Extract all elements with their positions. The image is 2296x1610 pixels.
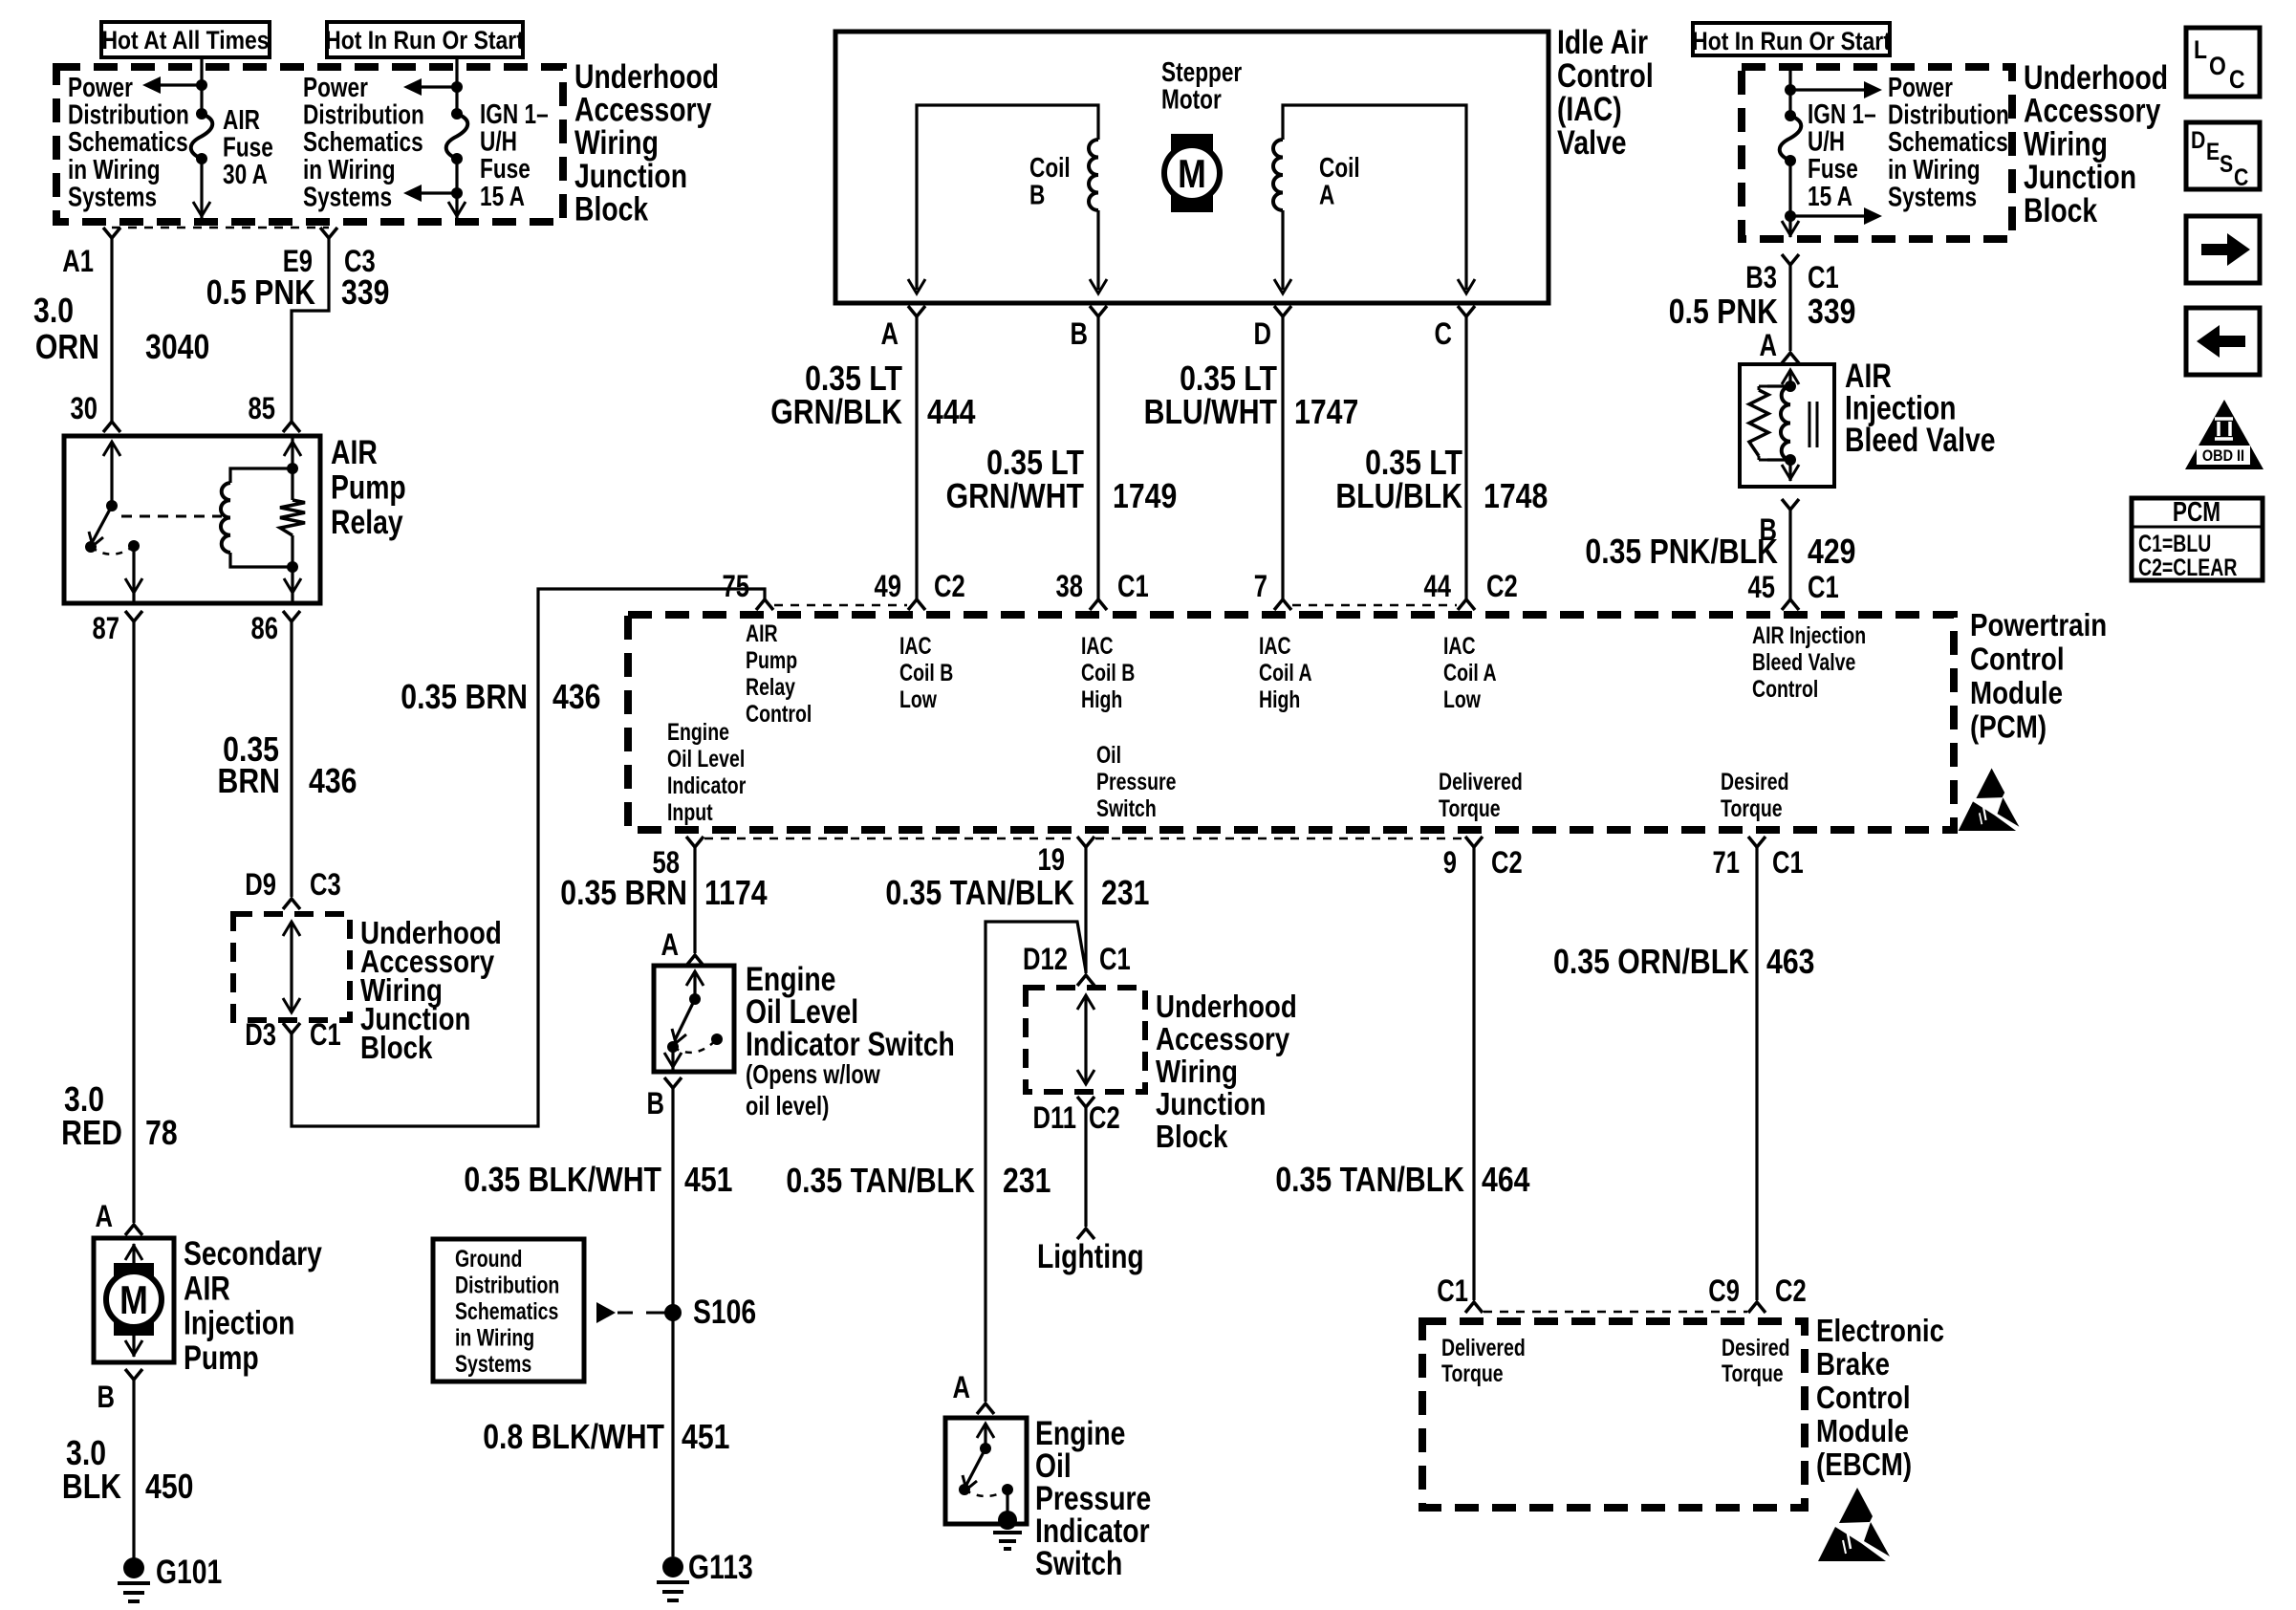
- svg-text:Brake: Brake: [1816, 1347, 1890, 1382]
- svg-text:Bleed Valve: Bleed Valve: [1752, 649, 1855, 676]
- svg-text:A: A: [96, 1200, 114, 1233]
- svg-text:Hot At All Times: Hot At All Times: [101, 26, 269, 54]
- arrow to Power Distribution Schematics (left): [153, 83, 202, 86]
- bleed valve pin B connector and label: [1782, 499, 1799, 510]
- svg-text:0.35 PNK/BLK: 0.35 PNK/BLK: [1585, 533, 1778, 572]
- PCM connector link dashed line 75-49: [774, 604, 907, 607]
- wire A1 to relay pin 30, circuit 3.0 ORN 3040: [110, 238, 113, 422]
- svg-text:Torque: Torque: [1722, 1360, 1784, 1387]
- wire pump B to ground G101, circuit 3.0 BLK 450: [132, 1380, 135, 1558]
- svg-text:0.8 BLK/WHT: 0.8 BLK/WHT: [483, 1419, 664, 1457]
- svg-text:0.35 BRN: 0.35 BRN: [401, 679, 528, 717]
- svg-text:Indicator Switch: Indicator Switch: [746, 1025, 955, 1063]
- svg-text:0.35 BRN: 0.35 BRN: [560, 875, 687, 913]
- svg-text:0.35 ORN/BLK: 0.35 ORN/BLK: [1553, 944, 1749, 982]
- svg-text:A: A: [1319, 179, 1335, 210]
- wire from Hot At All Times into junction block: [200, 57, 203, 114]
- svg-text:OBD II: OBD II: [2202, 447, 2244, 465]
- svg-text:Coil B: Coil B: [899, 660, 953, 686]
- svg-text:Oil: Oil: [1096, 742, 1121, 769]
- wire B3/C1 to bleed valve, circuit 0.5 PNK 339: [1788, 265, 1791, 351]
- svg-text:339: 339: [1808, 294, 1855, 332]
- PCM connector link dashed line 7-44: [1292, 604, 1457, 607]
- svg-text:C1: C1: [1099, 943, 1131, 976]
- svg-text:15 A: 15 A: [480, 180, 525, 211]
- svg-text:436: 436: [552, 679, 600, 717]
- svg-text:1747: 1747: [1294, 394, 1358, 432]
- svg-text:Block: Block: [574, 190, 648, 228]
- svg-text:C2=CLEAR: C2=CLEAR: [2138, 555, 2237, 581]
- svg-text:444: 444: [927, 394, 976, 432]
- svg-text:Input: Input: [667, 799, 713, 826]
- svg-text:231: 231: [1101, 875, 1149, 913]
- svg-text:19: 19: [1038, 843, 1065, 877]
- svg-text:Delivered: Delivered: [1439, 769, 1523, 795]
- svg-text:339: 339: [341, 274, 389, 313]
- IAC stepper motor symbol M: [1171, 134, 1213, 212]
- svg-text:ORN: ORN: [35, 329, 99, 367]
- engine oil pressure indicator switch box: [945, 1418, 1027, 1524]
- legend box: PCM connectors: [2132, 498, 2263, 580]
- wire relay 87 to secondary AIR injection pump, circuit 3.0 RED 78: [132, 621, 135, 1223]
- svg-text:Bleed Valve: Bleed Valve: [1845, 421, 1995, 459]
- node on right IGN fuse feed: [1785, 84, 1796, 96]
- svg-text:C3: C3: [310, 868, 341, 902]
- svg-text:C2: C2: [1486, 570, 1518, 603]
- arrow to Power Distribution Schematics (right, top): [1790, 88, 1866, 91]
- svg-text:Wiring: Wiring: [2024, 125, 2108, 163]
- svg-text:AIR: AIR: [331, 433, 378, 471]
- svg-text:44: 44: [1424, 570, 1451, 603]
- IAC coil B winding and wires: [917, 105, 1098, 290]
- svg-text:0.35 TAN/BLK: 0.35 TAN/BLK: [1275, 1162, 1464, 1200]
- svg-text:C9: C9: [1708, 1274, 1740, 1308]
- svg-text:A1: A1: [62, 245, 94, 278]
- svg-text:IAC: IAC: [1081, 633, 1114, 660]
- svg-text:49: 49: [875, 570, 901, 603]
- svg-text:Powertrain: Powertrain: [1970, 608, 2107, 643]
- svg-text:C: C: [2234, 163, 2249, 190]
- svg-text:Torque: Torque: [1441, 1360, 1504, 1387]
- svg-text:Secondary: Secondary: [184, 1234, 322, 1273]
- svg-text:M: M: [119, 1278, 148, 1322]
- svg-text:Torque: Torque: [1439, 795, 1501, 822]
- svg-text:High: High: [1081, 686, 1122, 713]
- svg-text:85: 85: [249, 392, 275, 425]
- icon: arrow left box: [2186, 308, 2260, 375]
- wire relay 86 down to junction block D9, circuit 0.35 BRN 436: [290, 621, 292, 897]
- connector E9 / C3 at junction block: [320, 228, 337, 238]
- svg-text:IAC: IAC: [1443, 633, 1476, 660]
- oil pressure switch contacts: [977, 1424, 994, 1438]
- svg-text:Underhood: Underhood: [2024, 58, 2168, 97]
- svg-text:Low: Low: [1443, 686, 1481, 713]
- svg-text:O: O: [2209, 52, 2226, 80]
- svg-text:Junction: Junction: [2024, 158, 2136, 196]
- svg-text:C1: C1: [1117, 570, 1149, 603]
- svg-text:Control: Control: [1816, 1381, 1911, 1416]
- svg-text:Desired: Desired: [1722, 1335, 1789, 1361]
- svg-text:C2: C2: [1089, 1101, 1120, 1135]
- svg-text:Oil Level: Oil Level: [667, 746, 745, 772]
- bleed valve resistor: [1767, 384, 1790, 387]
- relay pin 30 connector: [103, 422, 120, 432]
- svg-text:E: E: [2206, 138, 2220, 164]
- svg-text:S: S: [2220, 150, 2233, 177]
- ESD sensitive symbol near PCM: [1976, 769, 2004, 799]
- idle air control IAC valve box: [835, 32, 1549, 303]
- svg-text:C1: C1: [1808, 571, 1839, 604]
- svg-text:30: 30: [71, 392, 97, 425]
- svg-text:D3: D3: [245, 1018, 276, 1052]
- icon: DESC box: [2186, 122, 2260, 189]
- svg-text:D: D: [2191, 126, 2205, 153]
- svg-text:Injection: Injection: [184, 1304, 294, 1342]
- svg-text:RED: RED: [61, 1115, 122, 1153]
- wire below IGN fuse with arrow: [455, 159, 458, 218]
- svg-text:S106: S106: [693, 1293, 756, 1331]
- svg-text:D: D: [1254, 317, 1271, 351]
- reference arrow to S106: [596, 1302, 616, 1323]
- svg-text:GRN/WHT: GRN/WHT: [946, 478, 1084, 516]
- svg-text:Low: Low: [899, 686, 937, 713]
- wire PCM 9 to EBCM C1, circuit 0.35 TAN/BLK 464: [1472, 847, 1475, 1300]
- svg-text:7: 7: [1254, 570, 1267, 603]
- svg-text:M: M: [1178, 152, 1206, 196]
- svg-text:A: A: [661, 928, 680, 962]
- svg-text:451: 451: [684, 1162, 732, 1200]
- svg-text:Block: Block: [1156, 1120, 1228, 1155]
- svg-text:3.0: 3.0: [33, 293, 74, 331]
- underhood accessory wiring junction block (left dashed box): [56, 67, 563, 222]
- svg-text:AIR Injection: AIR Injection: [1752, 622, 1866, 649]
- svg-text:Systems: Systems: [1888, 181, 1977, 212]
- powertrain control module PCM dashed box: [628, 615, 1954, 830]
- svg-text:Pump: Pump: [331, 468, 406, 507]
- svg-text:Underhood: Underhood: [1156, 990, 1297, 1025]
- svg-text:464: 464: [1482, 1162, 1530, 1200]
- connector A1 at junction block: [103, 228, 120, 238]
- svg-text:C2: C2: [934, 570, 965, 603]
- svg-text:71: 71: [1713, 846, 1740, 880]
- svg-text:Delivered: Delivered: [1441, 1335, 1526, 1361]
- svg-text:A: A: [881, 317, 899, 351]
- svg-text:oil level): oil level): [746, 1091, 829, 1120]
- pump motor symbol: [132, 1244, 135, 1267]
- icon: OBD II triangle: [2185, 400, 2264, 469]
- svg-text:436: 436: [309, 763, 357, 801]
- svg-text:Lighting: Lighting: [1037, 1237, 1144, 1275]
- underhood accessory wiring junction block (small, bottom middle): [1026, 988, 1145, 1092]
- wire D11 to Lighting, circuit 0.35 TAN/BLK 231: [1084, 1107, 1087, 1227]
- svg-text:C: C: [1435, 317, 1453, 351]
- svg-text:15 A: 15 A: [1808, 180, 1852, 211]
- wire D3/C1 routed to PCM pin 75, circuit 0.35 BRN 436: [292, 589, 765, 1126]
- svg-text:45: 45: [1748, 571, 1775, 604]
- svg-text:C1: C1: [1772, 846, 1804, 880]
- IAC pin D connector and label: [1274, 306, 1291, 316]
- wire oil level switch B to S106, circuit 0.35 BLK/WHT 451: [671, 1088, 674, 1313]
- svg-text:L: L: [2194, 35, 2207, 64]
- svg-text:231: 231: [1003, 1163, 1051, 1201]
- svg-text:(Opens w/low: (Opens w/low: [746, 1059, 880, 1089]
- svg-text:Desired: Desired: [1721, 769, 1788, 795]
- svg-text:A: A: [953, 1371, 971, 1404]
- arrow from below right fuse (bottom): [1790, 214, 1866, 217]
- svg-text:Switch: Switch: [1096, 795, 1157, 822]
- ESD sensitive symbol near EBCM: [1839, 1488, 1873, 1523]
- svg-text:0.35 TAN/BLK: 0.35 TAN/BLK: [885, 875, 1074, 913]
- svg-text:30 A: 30 A: [223, 158, 268, 189]
- svg-text:in Wiring: in Wiring: [455, 1324, 534, 1351]
- svg-text:C2: C2: [1775, 1274, 1807, 1308]
- svg-text:3040: 3040: [145, 329, 209, 367]
- svg-text:BLK: BLK: [62, 1469, 121, 1507]
- relay switch arm and contacts: [103, 442, 120, 456]
- svg-text:Systems: Systems: [455, 1351, 531, 1378]
- svg-text:C: C: [2229, 65, 2245, 94]
- svg-text:B: B: [1029, 179, 1045, 210]
- svg-text:B: B: [647, 1087, 664, 1120]
- wire from Hot In Run Or Start into junction block: [455, 57, 458, 114]
- power label box: Hot In Run Or Start (left): [327, 22, 523, 57]
- svg-text:C1: C1: [310, 1018, 341, 1052]
- relay: AIR Pump Relay box: [64, 436, 320, 603]
- svg-text:1749: 1749: [1113, 478, 1177, 516]
- relay pin 85 connector: [283, 422, 300, 432]
- svg-text:Systems: Systems: [303, 181, 392, 212]
- branch wire to engine oil pressure switch: [986, 922, 1086, 1402]
- oil level switch contacts: [686, 971, 704, 986]
- svg-text:(PCM): (PCM): [1970, 709, 2047, 745]
- node below IGN fuse: [451, 187, 463, 199]
- node on AIR fuse feed: [196, 79, 207, 91]
- svg-text:Block: Block: [360, 1031, 433, 1066]
- svg-text:1748: 1748: [1484, 478, 1548, 516]
- svg-text:GRN/BLK: GRN/BLK: [770, 394, 902, 432]
- svg-text:G113: G113: [688, 1548, 753, 1586]
- power label box: Hot In Run Or Start (right): [1693, 23, 1890, 55]
- svg-text:Module: Module: [1816, 1414, 1909, 1449]
- svg-text:463: 463: [1766, 944, 1814, 982]
- relay resistor: [291, 436, 293, 500]
- svg-text:BLU/BLK: BLU/BLK: [1335, 478, 1462, 516]
- svg-text:Indicator: Indicator: [667, 772, 747, 799]
- electronic brake control module EBCM dashed box: [1422, 1321, 1805, 1508]
- svg-text:Relay: Relay: [331, 503, 403, 541]
- svg-text:(EBCM): (EBCM): [1816, 1447, 1912, 1483]
- ground distribution schematics reference box: [433, 1239, 584, 1382]
- svg-text:86: 86: [251, 612, 278, 645]
- wire E9/C3 to relay pin 85, circuit 0.5 PNK 339: [292, 238, 329, 422]
- svg-text:B3: B3: [1745, 261, 1777, 294]
- svg-text:429: 429: [1808, 533, 1855, 572]
- svg-text:D11: D11: [1032, 1101, 1076, 1135]
- arrow to Systems (middle, bottom): [416, 191, 457, 194]
- wire PCM 71 to EBCM C9/C2, circuit 0.35 ORN/BLK 463: [1755, 847, 1758, 1300]
- icon: arrow right box: [2186, 216, 2260, 283]
- splice node S106: [664, 1304, 682, 1321]
- IAC pin B connector and label: [1090, 306, 1107, 316]
- svg-text:0.5 PNK: 0.5 PNK: [1669, 294, 1778, 332]
- node on IGN fuse feed: [451, 81, 463, 93]
- svg-text:PCM: PCM: [2173, 495, 2220, 527]
- svg-text:G101: G101: [156, 1553, 222, 1591]
- svg-text:Module: Module: [1970, 676, 2063, 711]
- svg-text:Accessory: Accessory: [1156, 1022, 1289, 1057]
- svg-text:Pressure: Pressure: [1096, 769, 1176, 795]
- svg-text:C2: C2: [1491, 846, 1523, 880]
- svg-text:Junction: Junction: [1156, 1087, 1266, 1122]
- secondary AIR injection pump box: [94, 1238, 174, 1362]
- svg-text:Control: Control: [746, 701, 812, 728]
- svg-text:A: A: [1760, 329, 1778, 362]
- svg-text:AIR: AIR: [746, 620, 778, 647]
- svg-text:B: B: [1071, 317, 1088, 351]
- underhood accessory wiring junction block (right dashed box): [1742, 67, 2012, 239]
- svg-text:D9: D9: [245, 868, 276, 902]
- power label box: Hot At All Times: [101, 22, 270, 57]
- wire PCM 19 down to D12, circuit 0.35 TAN/BLK 231: [1084, 847, 1087, 973]
- wire below right fuse with arrow: [1788, 161, 1791, 237]
- connector B3 / C1: [1782, 254, 1799, 265]
- svg-text:Pump: Pump: [746, 647, 797, 674]
- svg-text:Control: Control: [1557, 56, 1654, 95]
- svg-text:Switch: Switch: [1035, 1544, 1122, 1582]
- wire below AIR fuse with arrow: [200, 159, 203, 218]
- svg-text:Schematics: Schematics: [455, 1298, 558, 1325]
- svg-text:B: B: [97, 1381, 115, 1414]
- svg-text:Idle Air: Idle Air: [1557, 23, 1648, 61]
- PCM bottom connector link dashed line 19-9: [1095, 838, 1464, 840]
- svg-text:0.35 BLK/WHT: 0.35 BLK/WHT: [464, 1162, 661, 1200]
- EBCM connector link dashed line: [1484, 1311, 1747, 1314]
- node below right fuse: [1785, 210, 1796, 222]
- svg-text:C1: C1: [1808, 261, 1839, 294]
- AIR injection bleed valve box: [1740, 364, 1834, 487]
- wire PCM 58 to oil level switch, circuit 0.35 BRN 1174: [693, 847, 696, 953]
- ground G101: [123, 1557, 144, 1578]
- svg-text:0.5 PNK: 0.5 PNK: [206, 274, 315, 313]
- svg-text:Hot In Run Or Start: Hot In Run Or Start: [1692, 27, 1891, 55]
- svg-text:Systems: Systems: [68, 181, 157, 212]
- svg-text:High: High: [1259, 686, 1300, 713]
- svg-text:0.35 TAN/BLK: 0.35 TAN/BLK: [786, 1163, 975, 1201]
- svg-text:Accessory: Accessory: [2024, 92, 2161, 130]
- connector link dashed line A1-E9: [112, 227, 329, 229]
- svg-text:Block: Block: [2024, 191, 2097, 229]
- wire bleed valve B to PCM 45, circuit 0.35 PNK/BLK 429: [1788, 510, 1791, 599]
- IAC pin A connector and label: [908, 306, 925, 316]
- ground G113: [662, 1556, 683, 1577]
- svg-text:78: 78: [145, 1115, 178, 1153]
- svg-text:87: 87: [93, 612, 119, 645]
- svg-text:Torque: Torque: [1721, 795, 1783, 822]
- svg-text:C1=BLU: C1=BLU: [2138, 531, 2211, 557]
- svg-text:Wiring: Wiring: [1156, 1055, 1238, 1090]
- svg-text:AIR: AIR: [184, 1269, 230, 1307]
- svg-text:9: 9: [1443, 846, 1457, 880]
- svg-text:Valve: Valve: [1557, 123, 1626, 162]
- fuse IGN 1- U/H Fuse 15 A (left): [451, 108, 463, 120]
- wire IAC D to PCM 7, circuit 0.35 LT BLU/WHT 1747: [1281, 316, 1284, 599]
- underhood accessory wiring junction block (small, mid-left): [233, 914, 350, 1020]
- svg-text:75: 75: [723, 570, 749, 603]
- svg-text:450: 450: [145, 1469, 193, 1507]
- wire S106 to ground G113, circuit 0.8 BLK/WHT 451: [671, 1313, 674, 1556]
- svg-text:Control: Control: [1752, 676, 1818, 703]
- fuse AIR Fuse 30 A: [196, 108, 207, 120]
- svg-text:BLU/WHT: BLU/WHT: [1144, 394, 1277, 432]
- arrow to Power Distribution Schematics (middle, top): [416, 85, 457, 88]
- svg-text:Ground: Ground: [455, 1246, 522, 1273]
- svg-text:Electronic: Electronic: [1816, 1314, 1944, 1349]
- relay coil: [230, 468, 292, 483]
- svg-text:Distribution: Distribution: [455, 1272, 559, 1298]
- oil pressure switch internal ground: [1006, 1490, 1008, 1518]
- wire from Hot In Run Or Start (right): [1788, 67, 1791, 116]
- svg-text:D12: D12: [1023, 943, 1068, 976]
- svg-text:Hot In Run Or Start: Hot In Run Or Start: [325, 26, 524, 54]
- engine oil level indicator switch box: [654, 966, 734, 1072]
- wire IAC A to PCM 49, circuit 0.35 LT GRN/BLK 444: [915, 316, 918, 599]
- svg-text:1174: 1174: [704, 875, 768, 913]
- PCM bottom connector link dashed line 58-19: [704, 838, 1076, 840]
- svg-text:Motor: Motor: [1161, 83, 1222, 115]
- svg-text:451: 451: [682, 1419, 729, 1457]
- wire IAC B to PCM 38, circuit 0.35 LT GRN/WHT 1749: [1096, 316, 1099, 599]
- bleed valve solenoid coil and core: [1782, 370, 1799, 384]
- svg-text:Coil A: Coil A: [1259, 660, 1312, 686]
- junction block pass-through wire (D12-D11): [1077, 995, 1094, 1010]
- svg-text:38: 38: [1056, 570, 1083, 603]
- relay actuation dashed link: [121, 515, 222, 518]
- svg-text:Control: Control: [1970, 642, 2065, 677]
- IAC pin C connector and label: [1458, 306, 1475, 316]
- svg-text:Engine: Engine: [667, 719, 729, 746]
- IAC coil A winding and wires: [1283, 105, 1466, 290]
- junction block pass-through wire (D9-D3): [283, 922, 300, 936]
- icon: LOC box: [2186, 28, 2260, 97]
- svg-text:IAC: IAC: [899, 633, 932, 660]
- svg-text:Coil B: Coil B: [1081, 660, 1135, 686]
- svg-text:IAC: IAC: [1259, 633, 1291, 660]
- svg-text:C1: C1: [1437, 1274, 1468, 1308]
- svg-text:Pump: Pump: [184, 1338, 259, 1377]
- svg-text:Coil A: Coil A: [1443, 660, 1497, 686]
- fuse IGN 1- U/H Fuse 15 A (right): [1785, 110, 1796, 121]
- svg-text:BRN: BRN: [217, 763, 280, 801]
- off-page connector to Lighting: [1077, 1229, 1094, 1239]
- wire IAC C to PCM 44, circuit 0.35 LT BLU/BLK 1748: [1464, 316, 1467, 599]
- relay switched output wire to pin 87: [132, 546, 135, 603]
- svg-text:Relay: Relay: [746, 674, 795, 701]
- svg-text:(IAC): (IAC): [1557, 90, 1622, 128]
